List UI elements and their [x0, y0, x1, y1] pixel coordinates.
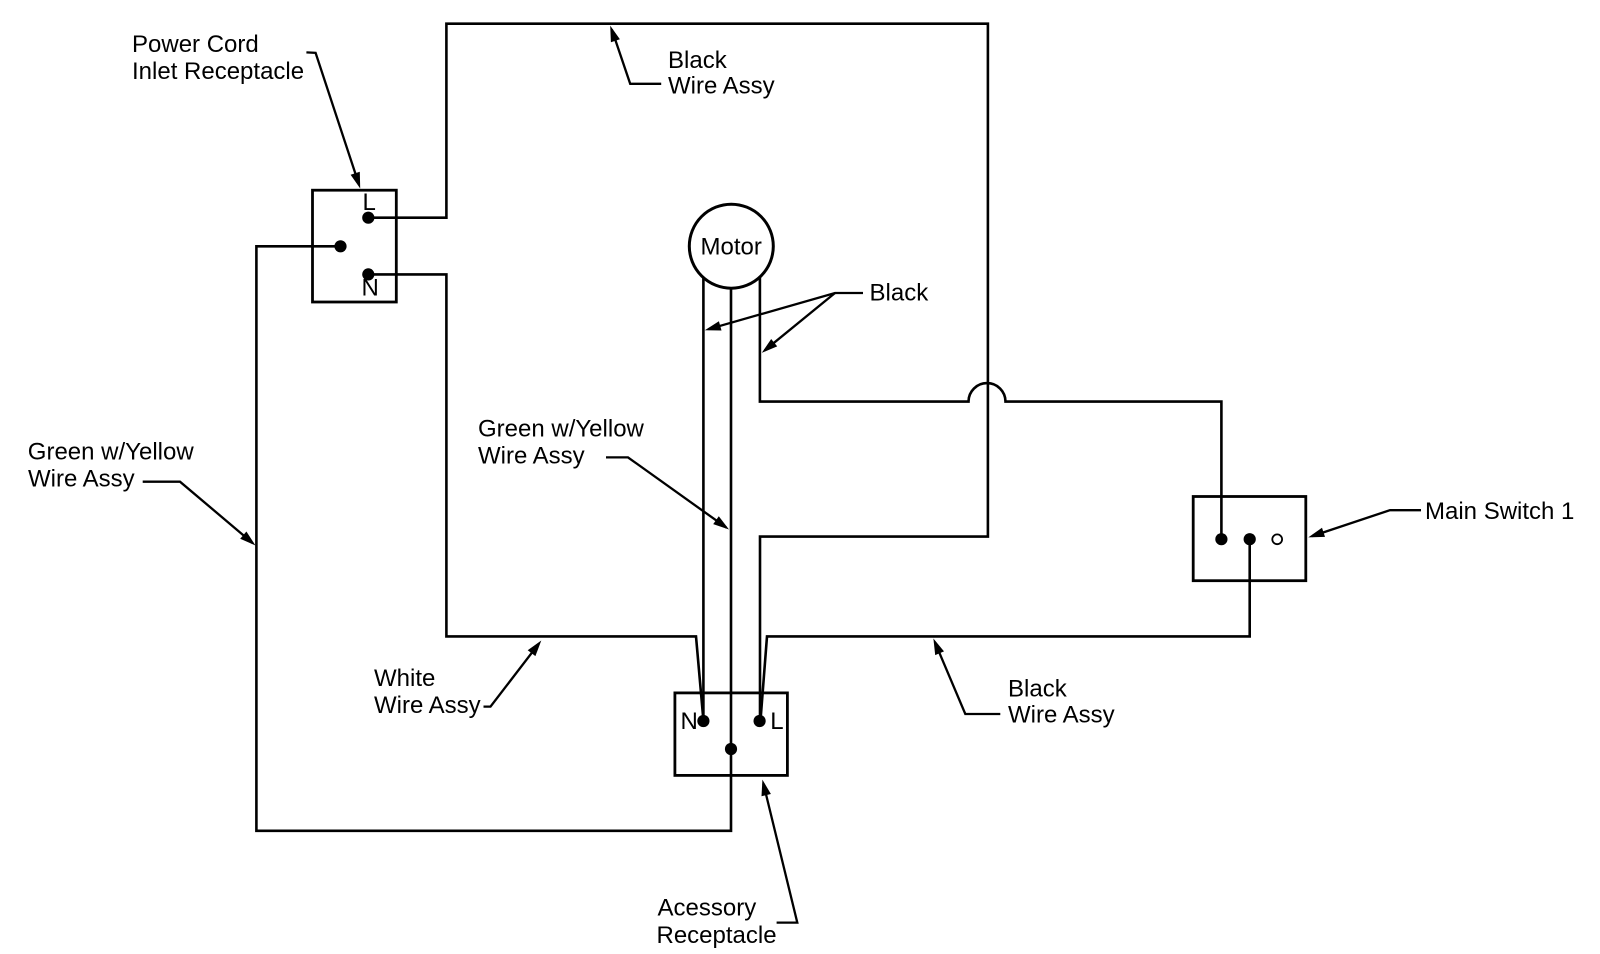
- svg-text:N: N: [681, 708, 698, 735]
- label: Power Cord Inlet Receptacle with leader arrow: [132, 31, 360, 189]
- wire: green w/yellow wire assy (inlet middle terminal, left side, bottom, up through accessory earth to motor): [256, 246, 731, 831]
- accessory receptacle box: [675, 693, 788, 776]
- terminal dot: accessory L: [754, 715, 766, 727]
- terminal dot: inlet L: [362, 212, 374, 224]
- terminal dot: inlet N: [362, 268, 374, 280]
- svg-text:Black: Black: [870, 280, 930, 307]
- svg-text:N: N: [362, 274, 379, 301]
- svg-text:Wire Assy: Wire Assy: [374, 692, 481, 719]
- power cord inlet receptacle box: [313, 190, 397, 302]
- wire: motor lead right (black) with hop over vertical, to main switch terminal: [760, 276, 1222, 539]
- wire: black wire assy (main switch middle terminal down, along y=636 into accessory L): [761, 539, 1250, 719]
- terminal dot: main switch middle: [1244, 533, 1256, 545]
- label: Main Switch 1 with leader arrow: [1308, 498, 1574, 537]
- label: Green w/Yellow Wire Assy (center) with leader arrow: [478, 416, 729, 530]
- label: Black Wire Assy (bottom) with leader arrow: [933, 639, 1114, 729]
- terminal: main switch open contact: [1272, 534, 1282, 544]
- terminal dot: inlet middle: [334, 240, 346, 252]
- svg-text:Wire Assy: Wire Assy: [478, 443, 585, 470]
- terminal dot: main switch left: [1215, 533, 1227, 545]
- svg-text:Inlet Receptacle: Inlet Receptacle: [132, 58, 304, 85]
- label: White Wire Assy with leader arrow: [374, 641, 541, 720]
- wire: motor lead left (black) down to accessory N terminal: [702, 278, 705, 721]
- label: Acessory Receptacle with leader arrow: [657, 780, 798, 950]
- motor M1: [689, 204, 773, 288]
- svg-text:L: L: [363, 189, 376, 216]
- wire: white wire assy (N terminal down and along bottom into accessory N): [368, 274, 703, 719]
- svg-text:Wire Assy: Wire Assy: [28, 465, 135, 492]
- svg-text:Receptacle: Receptacle: [657, 922, 777, 949]
- svg-text:Black: Black: [1008, 676, 1068, 703]
- wire: black wire assy (L terminal to top run, down right side to accessory L): [368, 24, 988, 721]
- label: Black Wire Assy (top) with leader arrow: [610, 26, 774, 100]
- svg-text:Green w/Yellow: Green w/Yellow: [28, 439, 195, 466]
- svg-text:Green w/Yellow: Green w/Yellow: [478, 416, 645, 443]
- svg-text:White: White: [374, 665, 435, 692]
- terminal dot: accessory N: [697, 715, 709, 727]
- svg-text:Power Cord: Power Cord: [132, 31, 259, 58]
- svg-text:Wire Assy: Wire Assy: [668, 73, 775, 100]
- svg-text:Main Switch 1: Main Switch 1: [1425, 498, 1574, 525]
- svg-text:Acessory: Acessory: [658, 895, 757, 922]
- terminal dot: accessory earth (middle): [725, 743, 737, 755]
- svg-text:L: L: [770, 708, 783, 735]
- svg-text:Black: Black: [668, 47, 728, 74]
- label: Black (motor leads) with two leader arrows: [705, 280, 929, 353]
- main switch 1 box: [1193, 497, 1306, 581]
- svg-text:Wire Assy: Wire Assy: [1008, 702, 1115, 729]
- svg-text:Motor: Motor: [701, 234, 762, 261]
- label: Green w/Yellow Wire Assy (left) with leader arrow: [28, 439, 256, 546]
